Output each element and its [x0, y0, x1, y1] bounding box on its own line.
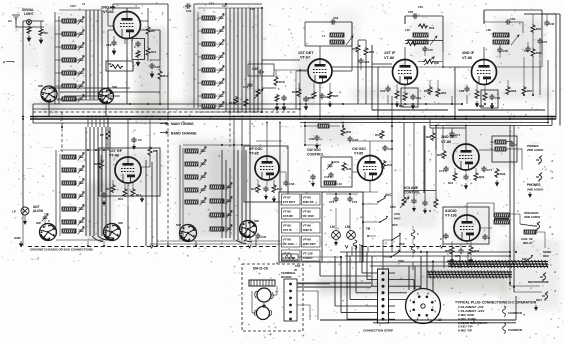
- component box V4: [481, 90, 498, 108]
- inductor L32: [62, 181, 76, 185]
- svg-text:C56: C56: [380, 89, 386, 93]
- ground key: [535, 305, 538, 310]
- capacitor C9: [131, 137, 136, 143]
- switch SW send: [523, 255, 533, 263]
- inductor L50: [210, 185, 224, 189]
- wire V2 plate right: [332, 70, 352, 72]
- trimmer C6: [78, 82, 85, 90]
- resistor R38: [531, 48, 535, 57]
- wire nest L8: [346, 252, 348, 319]
- svg-text:R41: R41: [375, 133, 381, 137]
- svg-text:AVC: AVC: [394, 212, 401, 216]
- wire bank D bus: [233, 150, 235, 240]
- svg-text:C35: C35: [261, 235, 267, 239]
- transformer L7 box: [304, 22, 306, 46]
- svg-text:C61: C61: [416, 96, 422, 100]
- wire relay: [536, 231, 545, 233]
- wire V5 below: [112, 180, 114, 184]
- svg-text:VOLUME: VOLUME: [404, 186, 419, 190]
- wire bend c1: [92, 236, 103, 242]
- svg-text:COMMON: COMMON: [508, 328, 522, 332]
- antenna A1: [12, 15, 20, 24]
- capacitor C74: [509, 141, 514, 147]
- svg-text:LM: LM: [345, 225, 350, 229]
- inductor L7: [62, 97, 76, 101]
- wire bank B bus: [233, 8, 235, 112]
- resistor R61: [403, 92, 407, 101]
- wire bank B bus: [257, 8, 259, 112]
- node: [147, 103, 149, 105]
- resistor R7: [106, 130, 110, 140]
- wire bankB row4: [198, 69, 202, 71]
- resistor R39: [434, 198, 438, 208]
- wire under bank A h3: [64, 95, 120, 97]
- wire bank D bus: [241, 150, 243, 240]
- wire cw vertical: [391, 96, 393, 246]
- wire bus drop: [87, 119, 89, 127]
- wire V8 top: [465, 126, 467, 145]
- svg-text:VT-136: VT-136: [303, 252, 313, 256]
- trimmer C5: [78, 69, 85, 77]
- audio stage box: [443, 207, 489, 244]
- wire det top h: [430, 127, 466, 129]
- wire left edge vertical: [22, 21, 24, 207]
- wire vol: [403, 193, 405, 196]
- wire R8: [149, 119, 151, 146]
- svg-text:VT-86: VT-86: [283, 210, 292, 214]
- resistor R10: [158, 70, 162, 80]
- svg-text:C55: C55: [408, 10, 414, 14]
- tube V1: [114, 12, 141, 39]
- svg-text:KEY: KEY: [536, 298, 542, 302]
- svg-text:LIGHT: LIGHT: [24, 12, 34, 16]
- svg-text:TYPICAL PLUG CONNECTIONS D-: TYPICAL PLUG CONNECTIONS D-C OPERATION: [455, 301, 537, 305]
- svg-text:R18: R18: [279, 80, 285, 84]
- output transformer T5: [494, 213, 509, 217]
- wire under bank A h1: [46, 87, 130, 89]
- svg-text:C43: C43: [324, 175, 330, 179]
- svg-text:C45: C45: [252, 67, 258, 71]
- wire R7 drop: [107, 119, 109, 130]
- capacitor cw left: [310, 174, 315, 180]
- svg-text:8 MIC TIP: 8 MIC TIP: [458, 329, 472, 333]
- node: [129, 118, 131, 120]
- wire bus drop: [103, 119, 105, 127]
- capacitor C44: [247, 82, 252, 88]
- terminal board: [284, 279, 297, 321]
- svg-text:COMMON: COMMON: [508, 311, 522, 315]
- wire V2 grid line: [296, 70, 308, 72]
- wire L6 row: [55, 85, 62, 87]
- component box V1: [132, 39, 145, 60]
- svg-text:R20: R20: [94, 162, 100, 166]
- coil L8: [330, 40, 344, 44]
- tube chart cell: [302, 208, 321, 219]
- capacitor C68: [464, 86, 469, 92]
- node: [87, 245, 89, 247]
- wire strip to plug 1: [395, 279, 414, 281]
- plug center: [421, 304, 425, 308]
- wire bank B bus: [261, 8, 263, 112]
- resistor R20: [99, 160, 103, 169]
- node: [167, 116, 169, 118]
- wire cw top: [304, 123, 306, 146]
- svg-text:VT-86: VT-86: [384, 56, 394, 60]
- node: [305, 103, 307, 105]
- node: [476, 103, 478, 105]
- wire bankB row5: [198, 82, 202, 84]
- terminal: [289, 283, 292, 286]
- tube V2: [308, 59, 332, 83]
- node: [391, 118, 393, 120]
- capacitor C37: [347, 136, 352, 142]
- trimmer C32: [78, 179, 85, 187]
- capacitor C20: [149, 63, 154, 69]
- svg-text:2ND RF: 2ND RF: [303, 200, 314, 204]
- resistor R47: [382, 160, 386, 169]
- node: [391, 125, 393, 127]
- wire bankB row6: [198, 95, 202, 97]
- svg-text:VT-65: VT-65: [249, 152, 259, 156]
- svg-text:RF OSC: RF OSC: [249, 147, 263, 151]
- wire bankB row3: [198, 56, 202, 58]
- wire bank B top: [198, 7, 262, 9]
- wire right edge vertical 2: [551, 117, 553, 126]
- wire trim: [44, 213, 46, 227]
- inductor L34: [62, 207, 76, 211]
- wire h key: [320, 319, 516, 321]
- wire bundle band 1: [448, 260, 548, 268]
- tube V4: [472, 60, 497, 85]
- wire L5 row: [55, 72, 62, 74]
- node: [91, 116, 93, 118]
- wire right col drop: [547, 60, 549, 123]
- wire interstage: [357, 40, 359, 44]
- wire IF bottoms: [387, 95, 389, 104]
- inductor L51: [210, 199, 224, 203]
- node: [509, 116, 511, 118]
- svg-text:1ST IF: 1ST IF: [384, 51, 396, 55]
- wire r58: [418, 61, 423, 63]
- node: [435, 116, 437, 118]
- wire V6 plate: [266, 141, 268, 156]
- wire bus left vert: [32, 104, 34, 123]
- jack J5: [536, 173, 542, 182]
- svg-text:VT-67: VT-67: [300, 56, 310, 60]
- pot R34 volume: [402, 196, 406, 206]
- trimmer C51: [226, 197, 233, 205]
- wire right mid: [521, 158, 523, 170]
- capacitor C35: [255, 233, 260, 239]
- switch avc2: [379, 216, 388, 223]
- svg-text:R10: R10: [163, 74, 169, 78]
- wire T4 right: [506, 148, 522, 150]
- node: [167, 245, 169, 247]
- svg-text:C66: C66: [503, 49, 508, 53]
- component box V1 lower: [106, 61, 133, 71]
- resistor R30: [431, 132, 435, 141]
- node: [377, 118, 379, 120]
- wire V7: [352, 171, 358, 173]
- stage box V1: [167, 4, 169, 110]
- capacitor C38: [283, 180, 288, 186]
- svg-text:R66: R66: [479, 104, 485, 108]
- wire V1 drop: [126, 39, 128, 105]
- wire dashed linkage A: [61, 112, 63, 152]
- trimmer C27: [218, 102, 225, 110]
- wire bank B bottom: [198, 111, 262, 113]
- tube chart cell: [282, 236, 301, 247]
- trimmer C40: [200, 147, 207, 155]
- node: [266, 116, 268, 118]
- svg-text:CW OSC: CW OSC: [307, 148, 321, 152]
- node: [299, 118, 301, 120]
- node: [355, 245, 357, 247]
- wire V2 left vert: [295, 88, 297, 109]
- wire long h2: [345, 255, 510, 257]
- capacitor C83: [482, 234, 487, 240]
- tube V3: [393, 60, 418, 85]
- svg-text:C: C: [440, 237, 442, 241]
- svg-text:R67: R67: [527, 89, 533, 93]
- svg-text:C37: C37: [353, 138, 359, 142]
- generator G1: [257, 307, 270, 320]
- resistor R65: [475, 90, 479, 99]
- svg-text:R43: R43: [251, 187, 257, 191]
- svg-text:C38: C38: [289, 182, 295, 186]
- pot R58: [423, 60, 434, 64]
- wire strip to plug 4: [395, 298, 406, 300]
- wire bank A bus: [97, 10, 99, 100]
- inductor L13: [202, 55, 215, 59]
- resistor R25: [312, 91, 316, 99]
- wire V4 top link: [483, 10, 485, 24]
- svg-text:SW: SW: [254, 219, 259, 223]
- wire V3 stage rail: [372, 109, 448, 111]
- svg-text:C42: C42: [388, 147, 394, 151]
- wire long h1: [340, 251, 510, 253]
- svg-text:C63: C63: [333, 16, 339, 20]
- resistor R16: [244, 98, 248, 107]
- wire V9 plate: [466, 203, 468, 215]
- trimmer C30: [78, 153, 85, 161]
- resistor R35: [450, 246, 454, 255]
- wire tb h2: [297, 286, 371, 288]
- pot R49: [256, 88, 260, 97]
- ground V5: [140, 196, 143, 202]
- svg-text:BAND CHANGE: BAND CHANGE: [171, 131, 197, 135]
- wire antenna feed: [15, 24, 17, 27]
- wire bank D bus: [245, 150, 247, 240]
- node: [483, 116, 485, 118]
- wire bank B to V2 h2: [262, 87, 276, 89]
- node: [299, 103, 301, 105]
- inductor L36: [62, 229, 76, 233]
- trimmer C26: [42, 214, 49, 222]
- node: [233, 116, 235, 118]
- wire nest L5: [349, 256, 351, 299]
- trimmer C42: [200, 173, 207, 181]
- wire to bank A: [23, 20, 44, 22]
- terminal: [289, 297, 292, 300]
- wire v1 misc: [108, 29, 114, 31]
- node: [447, 260, 449, 262]
- wire jack col: [509, 126, 511, 153]
- wire bank C bus: [89, 127, 91, 236]
- jack J6: [540, 273, 546, 282]
- wire V3 subrow: [405, 40, 443, 42]
- lamp LM1: [332, 231, 341, 240]
- wire bank B bus: [225, 8, 227, 112]
- wire V3 below: [387, 85, 389, 87]
- label BAND CHANGE: [160, 131, 168, 134]
- fuse F2: [411, 244, 415, 253]
- inductor L3: [62, 45, 76, 49]
- svg-text:OFF: OFF: [392, 223, 398, 227]
- node: [532, 94, 534, 96]
- box CW OSC control: [321, 157, 352, 187]
- wire c45 to V2: [300, 69, 308, 71]
- svg-text:S: S: [359, 243, 361, 247]
- svg-text:SW: SW: [176, 223, 181, 227]
- wire V5 col: [145, 160, 147, 205]
- svg-text:CW OSC: CW OSC: [352, 147, 366, 151]
- node: [319, 118, 321, 120]
- svg-text:R30: R30: [426, 135, 432, 139]
- svg-text:RF OSC: RF OSC: [303, 214, 315, 218]
- resistor R15: [234, 96, 238, 105]
- node: [283, 103, 285, 105]
- capacitor C63: [330, 19, 336, 24]
- node: [335, 193, 337, 195]
- node: [547, 116, 549, 118]
- capacitor C82: [443, 233, 448, 239]
- svg-text:C18: C18: [106, 43, 112, 47]
- node: [391, 140, 393, 142]
- wire tb v: [317, 291, 319, 320]
- wire c45 area: [261, 60, 263, 64]
- inductor L11: [202, 29, 215, 33]
- coil L28a: [493, 33, 509, 37]
- node: [454, 116, 456, 118]
- wire avc: [363, 203, 378, 205]
- coil L15: [318, 124, 329, 128]
- node: [425, 103, 427, 105]
- capacitor C77: [458, 248, 463, 254]
- svg-text:R7: R7: [100, 133, 104, 137]
- resistor R40: [341, 127, 345, 136]
- trimmer C50: [226, 183, 233, 191]
- node: [391, 116, 393, 118]
- svg-text:C48: C48: [549, 22, 555, 26]
- resistor R19: [275, 94, 279, 102]
- coil L20a: [413, 33, 428, 37]
- svg-text:GND: GND: [14, 236, 22, 240]
- wire bus drop: [107, 119, 109, 127]
- svg-text:R53: R53: [429, 26, 435, 30]
- svg-text:R40: R40: [346, 130, 352, 134]
- wire T5 right: [509, 213, 520, 215]
- svg-text:VT-86: VT-86: [303, 210, 312, 214]
- capacitor C48: [544, 20, 549, 26]
- node: [159, 103, 161, 105]
- ground LM1: [335, 240, 338, 245]
- capacitor C45 box: [248, 64, 274, 76]
- inductor L16: [202, 94, 215, 98]
- wire bus left seg: [33, 122, 168, 124]
- svg-text:L28: L28: [486, 28, 491, 32]
- svg-text:R29: R29: [437, 153, 443, 157]
- wire V4 left: [455, 66, 472, 68]
- resistor R8: [148, 146, 152, 156]
- node: [513, 286, 515, 288]
- svg-text:C22: C22: [364, 60, 370, 64]
- capacitor C78: [333, 196, 338, 202]
- inductor L12: [202, 42, 215, 46]
- svg-text:R46: R46: [346, 167, 352, 171]
- wire bankB row2: [198, 43, 202, 45]
- component box T4: [492, 136, 517, 162]
- trimmer C52: [226, 211, 233, 219]
- capacitor C42 right: [382, 145, 387, 151]
- node: [465, 116, 467, 118]
- inductor L30: [62, 155, 76, 159]
- svg-text:VT-86: VT-86: [103, 9, 114, 14]
- capacitor C22: [358, 58, 363, 64]
- inductor L17: [202, 104, 215, 108]
- trimmer C3: [78, 43, 85, 51]
- resistor R63: [428, 86, 432, 95]
- wire v2v3 h: [332, 66, 378, 68]
- wire L2 row: [55, 33, 62, 35]
- capacitor C55: [412, 13, 418, 18]
- tube chart cell: [302, 236, 321, 247]
- fuse F3: [353, 240, 357, 249]
- wire bus drop: [95, 119, 97, 127]
- coil L16: [324, 181, 336, 185]
- tube chart cell: [282, 194, 301, 205]
- trimmer C31: [78, 166, 85, 174]
- wire low drops: [351, 247, 353, 257]
- terminal strip pin: [382, 285, 385, 288]
- trimmer C7: [78, 95, 85, 103]
- svg-text:MICROPHONE: MICROPHONE: [528, 280, 549, 284]
- dynamotor box: [242, 264, 303, 331]
- svg-text:C64: C64: [510, 17, 516, 21]
- svg-text:VT-86: VT-86: [303, 196, 312, 200]
- component box V3: [401, 88, 418, 107]
- wire nest v: [443, 256, 445, 268]
- node: [156, 245, 158, 247]
- wire bank B bus: [237, 8, 239, 112]
- switch sr1: [391, 233, 401, 241]
- wire bank B bus: [253, 8, 255, 112]
- node: [304, 144, 306, 146]
- resistor R11: [111, 184, 115, 193]
- wire bus 2: [33, 108, 300, 110]
- ground-line ticks: [150, 245, 153, 248]
- node: [513, 116, 515, 118]
- trimmer C41: [200, 160, 207, 168]
- node: [95, 149, 97, 151]
- terminal strip pin: [382, 298, 385, 301]
- svg-text:ALIGN: ALIGN: [33, 209, 44, 213]
- wire bus 4: [30, 118, 556, 120]
- resistor R2: [39, 28, 43, 36]
- switch sr2: [390, 250, 400, 258]
- resistor R53: [418, 24, 428, 28]
- wire right edge 3: [559, 14, 561, 126]
